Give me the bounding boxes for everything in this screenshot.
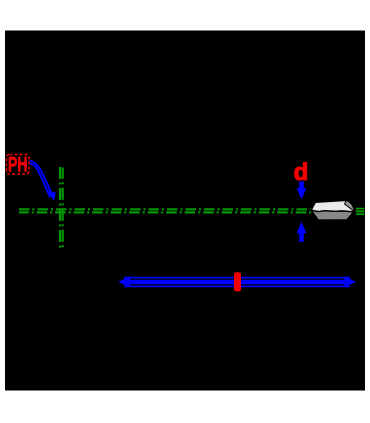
dimension line l (blue double-stroke) — [122, 278, 352, 287]
l left arrowhead — [118, 276, 130, 287]
annotation arrow from PH to axis crosshair — [30, 161, 53, 197]
l right arrowhead — [344, 276, 356, 287]
label l (distance) — [234, 272, 241, 291]
label PH (pinhole) with dashed box — [7, 154, 30, 177]
razor blade bottom face — [311, 210, 354, 220]
optical axis (green dash-dot horizontal) — [19, 209, 353, 212]
svg-text:PH: PH — [8, 154, 28, 177]
crosshair vertical line (pinhole plane) — [60, 167, 63, 251]
dimension arrow d upper (points down to axis) — [297, 182, 307, 200]
optical axis end segment (right of blade) — [356, 209, 365, 215]
dimension arrow d lower (points up to axis) — [297, 222, 307, 242]
razor blade top face — [311, 200, 354, 211]
razor blade corner curl — [345, 200, 355, 211]
